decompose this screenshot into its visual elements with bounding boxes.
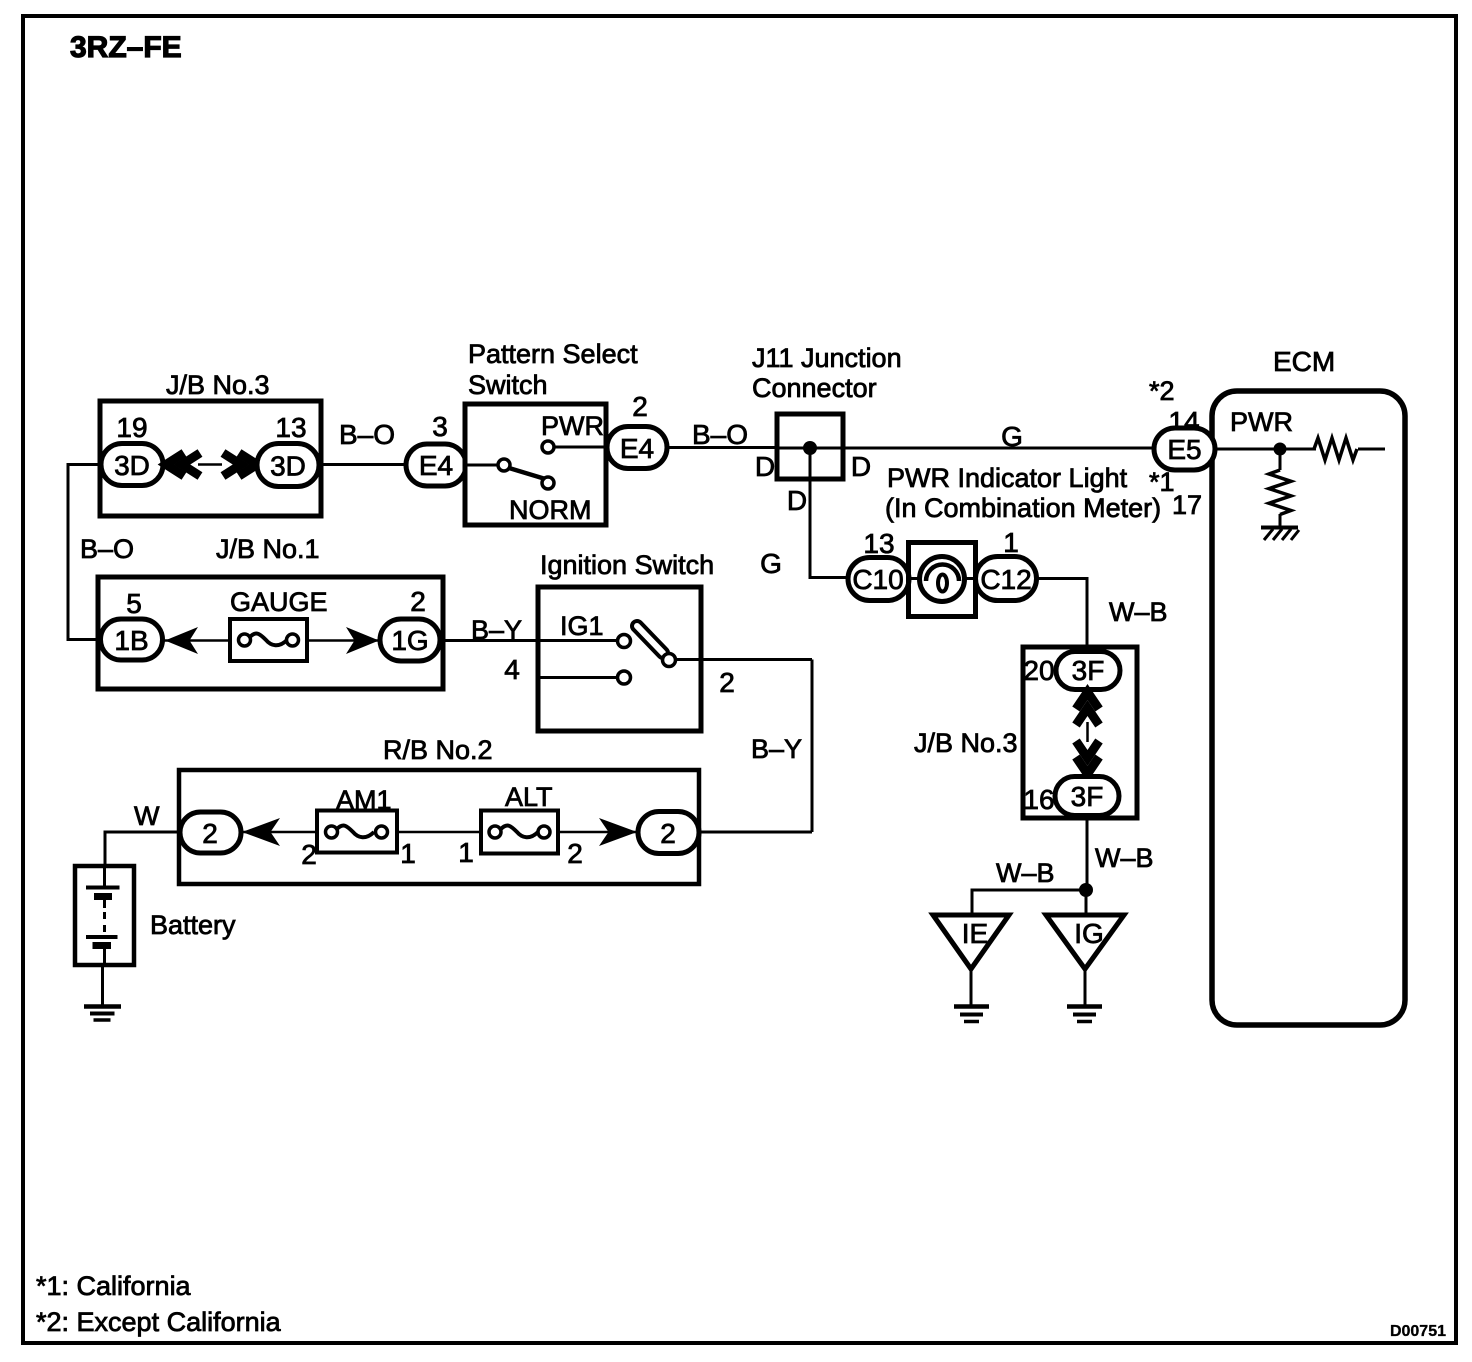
resistor R1 (pull-up) — [1314, 438, 1357, 460]
resistor R2 (to ground) — [1269, 470, 1291, 514]
svg-text:3F: 3F — [1072, 655, 1105, 686]
svg-text:B–O: B–O — [692, 419, 748, 450]
svg-text:ALT: ALT — [505, 782, 553, 812]
wire fuse to 1G — [307, 639, 380, 642]
arrow left — [242, 818, 280, 846]
connector 1G — [380, 619, 440, 661]
svg-text:2: 2 — [301, 839, 317, 870]
svg-text:E5: E5 — [1167, 434, 1201, 465]
svg-text:NORM: NORM — [509, 495, 592, 525]
arrow right double chevron — [239, 453, 257, 476]
connector E4 pin 2 — [607, 427, 667, 469]
wire AM1 to ALT — [397, 831, 481, 834]
wire B-O from J/B No.3 pin 19 down to J/B No.1 pin 5 — [68, 465, 101, 640]
wire inside R/B — [241, 831, 317, 834]
svg-text:W: W — [134, 801, 160, 831]
lamp housing (combination meter) — [909, 543, 976, 617]
svg-text:1G: 1G — [391, 625, 428, 656]
connector C10 — [848, 558, 909, 601]
svg-text:B–Y: B–Y — [471, 615, 522, 645]
switch lever (NORM position) — [509, 468, 552, 481]
connector 3F (pin 16) — [1055, 777, 1119, 816]
svg-text:19: 19 — [116, 412, 147, 443]
wire B-Y down to R/B No.2 — [811, 660, 814, 833]
svg-text:W–B: W–B — [1109, 597, 1168, 627]
wire to IG — [1085, 890, 1088, 915]
wire lower contact — [538, 676, 618, 679]
svg-text:C12: C12 — [980, 564, 1031, 595]
ground (battery) — [84, 1004, 121, 1009]
connector 3D (pin 13) — [257, 444, 319, 487]
svg-text:D: D — [787, 485, 807, 516]
ECM box — [1212, 391, 1405, 1025]
svg-text:IE: IE — [962, 918, 988, 949]
ground connector IG — [1046, 915, 1124, 969]
connector E5 pin 14 — [1154, 428, 1215, 470]
wire 3F down to ground junction — [1086, 816, 1089, 891]
svg-text:W–B: W–B — [996, 858, 1055, 888]
connector 3D (pin 19) — [101, 444, 163, 486]
node J11 — [803, 441, 817, 455]
wire 3D to E4 — [319, 463, 406, 466]
arrow left — [165, 627, 198, 654]
svg-text:20: 20 — [1023, 655, 1054, 686]
svg-text:G: G — [760, 548, 782, 579]
wire C12 to J/B No.3 — [1037, 579, 1088, 653]
ground connector IE — [933, 915, 1009, 969]
svg-text:W–B: W–B — [1095, 843, 1154, 873]
ground (IE) — [954, 1004, 989, 1009]
arrow up double chevron — [1076, 692, 1099, 709]
svg-text:C10: C10 — [852, 564, 903, 595]
svg-text:5: 5 — [126, 588, 142, 619]
svg-text:3RZ–FE: 3RZ–FE — [70, 31, 182, 64]
contact output — [663, 654, 676, 667]
arrow right — [599, 818, 637, 846]
connector 2 (left) — [180, 812, 241, 853]
contact IG1 — [618, 635, 631, 648]
wire G down from J11 to C10 — [810, 448, 848, 578]
connector 1B — [101, 619, 163, 660]
connector E4 pin 3 — [406, 444, 466, 486]
connector 2 (right) — [638, 812, 699, 854]
lamp PWR indicator bulb — [920, 557, 965, 602]
svg-text:17: 17 — [1172, 490, 1202, 520]
svg-text:2: 2 — [410, 586, 426, 617]
svg-text:(In Combination Meter): (In Combination Meter) — [885, 493, 1161, 523]
svg-text:2: 2 — [202, 818, 218, 849]
svg-text:Ignition Switch: Ignition Switch — [540, 550, 714, 580]
svg-text:PWR: PWR — [1230, 407, 1293, 437]
svg-text:ECM: ECM — [1273, 346, 1335, 377]
svg-text:3D: 3D — [114, 450, 150, 481]
wire B-Y 1G to ignition switch — [440, 639, 618, 642]
wire PWR contact to pin 2 — [554, 446, 607, 449]
svg-text:3F: 3F — [1071, 781, 1104, 812]
arrow right — [346, 627, 379, 654]
svg-text:13: 13 — [275, 412, 306, 443]
svg-text:GAUGE: GAUGE — [230, 587, 328, 617]
svg-text:1: 1 — [400, 838, 416, 869]
wire PWR inside ECM — [1215, 448, 1385, 451]
svg-text:D00751: D00751 — [1390, 1323, 1446, 1340]
svg-text:E4: E4 — [620, 433, 654, 464]
svg-text:16: 16 — [1023, 784, 1054, 815]
junction block J/B No.3 (lower) — [1023, 647, 1137, 818]
arrow left double chevron — [166, 453, 184, 476]
svg-text:PWR: PWR — [541, 411, 604, 441]
svg-text:Connector: Connector — [752, 373, 877, 403]
connector C12 — [976, 557, 1037, 601]
junction block J/B No.3 (upper) — [100, 401, 321, 516]
svg-text:4: 4 — [504, 654, 520, 685]
svg-text:2: 2 — [567, 838, 583, 869]
contact pivot — [498, 459, 510, 471]
ground (ECM internal, chassis) — [1261, 526, 1298, 530]
wire between arrows — [1086, 722, 1089, 742]
wire E4 to switch pivot — [466, 464, 498, 467]
wire E4 to J11 — [667, 446, 777, 449]
svg-text:G: G — [1001, 421, 1023, 452]
svg-text:2: 2 — [660, 818, 676, 849]
svg-text:B–Y: B–Y — [751, 734, 802, 764]
contact (lower) — [618, 671, 631, 684]
svg-text:2: 2 — [632, 391, 648, 422]
svg-text:3D: 3D — [270, 451, 306, 482]
svg-text:B–O: B–O — [80, 534, 134, 564]
svg-text:J/B No.3: J/B No.3 — [166, 370, 270, 400]
svg-text:13: 13 — [863, 528, 894, 559]
svg-text:*2: Except California: *2: Except California — [36, 1307, 282, 1337]
svg-text:3: 3 — [432, 411, 448, 442]
relay block R/B No.2 — [179, 770, 699, 884]
wire G to ECM — [843, 447, 1154, 450]
connector 3F (pin 20) — [1056, 652, 1120, 690]
switch lever — [637, 626, 663, 653]
node PWR — [1274, 443, 1287, 456]
wire through indicator lamp — [909, 577, 975, 580]
svg-text:*2: *2 — [1149, 376, 1175, 406]
svg-text:2: 2 — [719, 667, 735, 698]
wire battery to ground — [101, 965, 104, 1005]
wire R/B to B-Y riser — [699, 831, 812, 834]
svg-text:R/B No.2: R/B No.2 — [383, 735, 493, 765]
wire into IG1 contact — [538, 639, 618, 642]
svg-text:D: D — [755, 451, 775, 482]
ground (IG) — [1067, 1004, 1102, 1009]
wire node down — [1279, 449, 1282, 527]
svg-text:Switch: Switch — [468, 370, 548, 400]
wire 1B to fuse — [162, 639, 230, 642]
arrow down double chevron — [1076, 757, 1099, 774]
svg-text:J/B No.3: J/B No.3 — [914, 728, 1018, 758]
wire between 3D connectors — [198, 463, 222, 466]
svg-text:B–O: B–O — [339, 419, 395, 450]
svg-text:J11 Junction: J11 Junction — [752, 343, 902, 373]
contact NORM — [542, 477, 554, 489]
svg-text:IG: IG — [1074, 918, 1104, 949]
svg-text:*1: California: *1: California — [36, 1271, 192, 1301]
svg-text:E4: E4 — [419, 450, 453, 481]
wire ignition output — [676, 658, 813, 661]
svg-text:Pattern Select: Pattern Select — [468, 339, 638, 369]
svg-text:1: 1 — [1003, 527, 1019, 558]
svg-text:1B: 1B — [114, 625, 148, 656]
wire IG stem — [1084, 969, 1087, 1005]
svg-text:J/B No.1: J/B No.1 — [216, 534, 320, 564]
svg-text:Battery: Battery — [150, 910, 236, 940]
svg-text:1: 1 — [458, 837, 474, 868]
wire IE stem — [970, 969, 973, 1005]
svg-text:D: D — [851, 451, 871, 482]
wire ALT to connector 2 — [558, 831, 638, 834]
contact PWR — [542, 441, 554, 453]
wire through J11 — [777, 447, 843, 450]
junction block J/B No.1 — [98, 577, 443, 689]
battery B1 — [75, 866, 134, 965]
wire branch to IE — [972, 890, 1086, 915]
svg-text:PWR Indicator Light: PWR Indicator Light — [887, 463, 1128, 493]
svg-text:IG1: IG1 — [560, 611, 604, 641]
junction node — [1079, 883, 1093, 897]
wire W battery to R/B — [105, 832, 180, 866]
